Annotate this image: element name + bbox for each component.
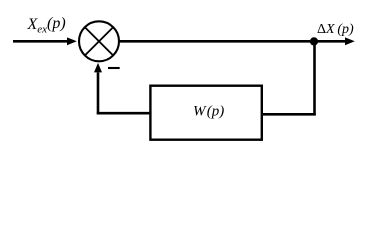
svg-text:ΔX (p): ΔX (p) <box>317 22 354 37</box>
wire: input line from X_ex(p) <box>13 40 69 43</box>
arrowhead: input into summer <box>67 37 77 45</box>
wire: vertical drop from takeoff node <box>313 40 316 116</box>
summing junction (comparator circle with X) <box>79 21 119 61</box>
wire: main output line <box>120 40 348 43</box>
arrowhead: feedback up into summer <box>94 63 102 73</box>
svg-text:W (p): W (p) <box>193 104 224 120</box>
minus sign at summer input <box>108 67 120 69</box>
arrowhead: output arrow <box>345 37 355 45</box>
node: takeoff point dot <box>310 37 318 45</box>
wire: feedback left segment out of W(p) <box>97 112 151 115</box>
wire: feedback vertical up into summer <box>97 73 100 115</box>
svg-text:Xex(p): Xex(p) <box>27 15 66 36</box>
block W(p) rectangle <box>150 86 261 140</box>
wire: feedback right segment into W(p) <box>261 113 316 116</box>
